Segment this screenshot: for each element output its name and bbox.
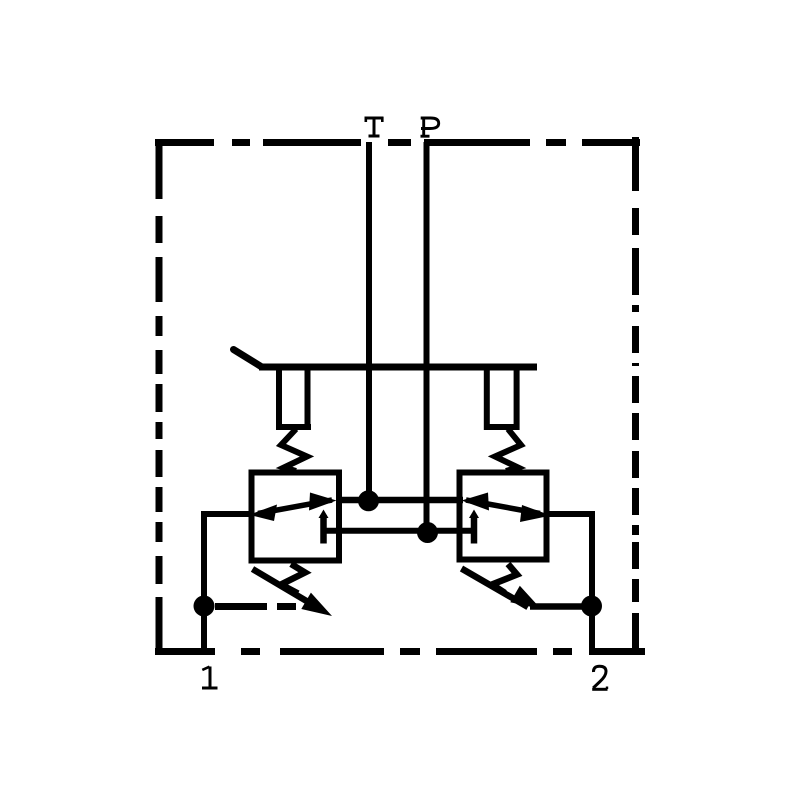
valve V1 flow arrowhead left [249,505,277,522]
valve V2 body (right box) [460,473,547,560]
junction dot node 2 [581,596,602,617]
enclosure border right (dashed) [632,137,639,655]
enclosure border top (dashed) [155,139,640,146]
valve V1 flow arrowhead right [309,493,337,511]
valve V1 pilot dashed line [215,603,296,610]
valve V1 adjust arrowhead [301,593,332,616]
valve V1 blocked port T-symbol [320,515,327,544]
left upper spring [281,429,307,471]
valve V2 adjust arrow shaft [462,569,529,608]
valve V2 T-symbol tip [469,510,479,519]
valve V2 adjust arrowhead [510,586,541,609]
lever handle [234,350,262,367]
enclosure border left (dashed) [156,139,163,655]
valve V1 flow arrow [258,500,332,514]
wire V2 outlet horizontal [546,511,595,517]
valve V2 flow arrow [466,500,540,514]
valve V2 flow arrowhead left [462,493,490,511]
wire port P vertical line [424,142,430,532]
port T label [365,117,384,136]
junction dot node 1 [194,596,215,617]
left piston box [276,368,311,427]
port 2 label [592,666,607,689]
wire port 2 vertical line [589,511,595,649]
valve V2 lower spring [492,564,517,593]
enclosure border bottom (dashed) [155,648,645,655]
port 1 label [202,667,218,689]
valve V1 adjust arrow shaft [253,569,321,609]
wire P-junction horizontal line [321,528,477,534]
right upper spring [495,429,521,471]
wire V1 outlet horizontal [201,511,252,517]
port P label [421,117,439,137]
valve V1 lower spring [281,564,305,594]
valve V2 blocked port T-symbol [471,515,478,544]
wire T-junction horizontal line [336,497,463,504]
junction dot P node [417,522,438,543]
wire V2 pilot solid line [530,603,590,610]
actuator bar [259,364,537,371]
junction dot T node [358,490,379,511]
right piston box [484,368,520,427]
valve V2 flow arrowhead right [520,505,551,522]
wire port T vertical line [366,142,372,501]
valve V1 body (left box) [252,473,340,561]
wire port 1 vertical line [201,511,207,649]
valve V1 T-symbol tip [319,510,329,519]
